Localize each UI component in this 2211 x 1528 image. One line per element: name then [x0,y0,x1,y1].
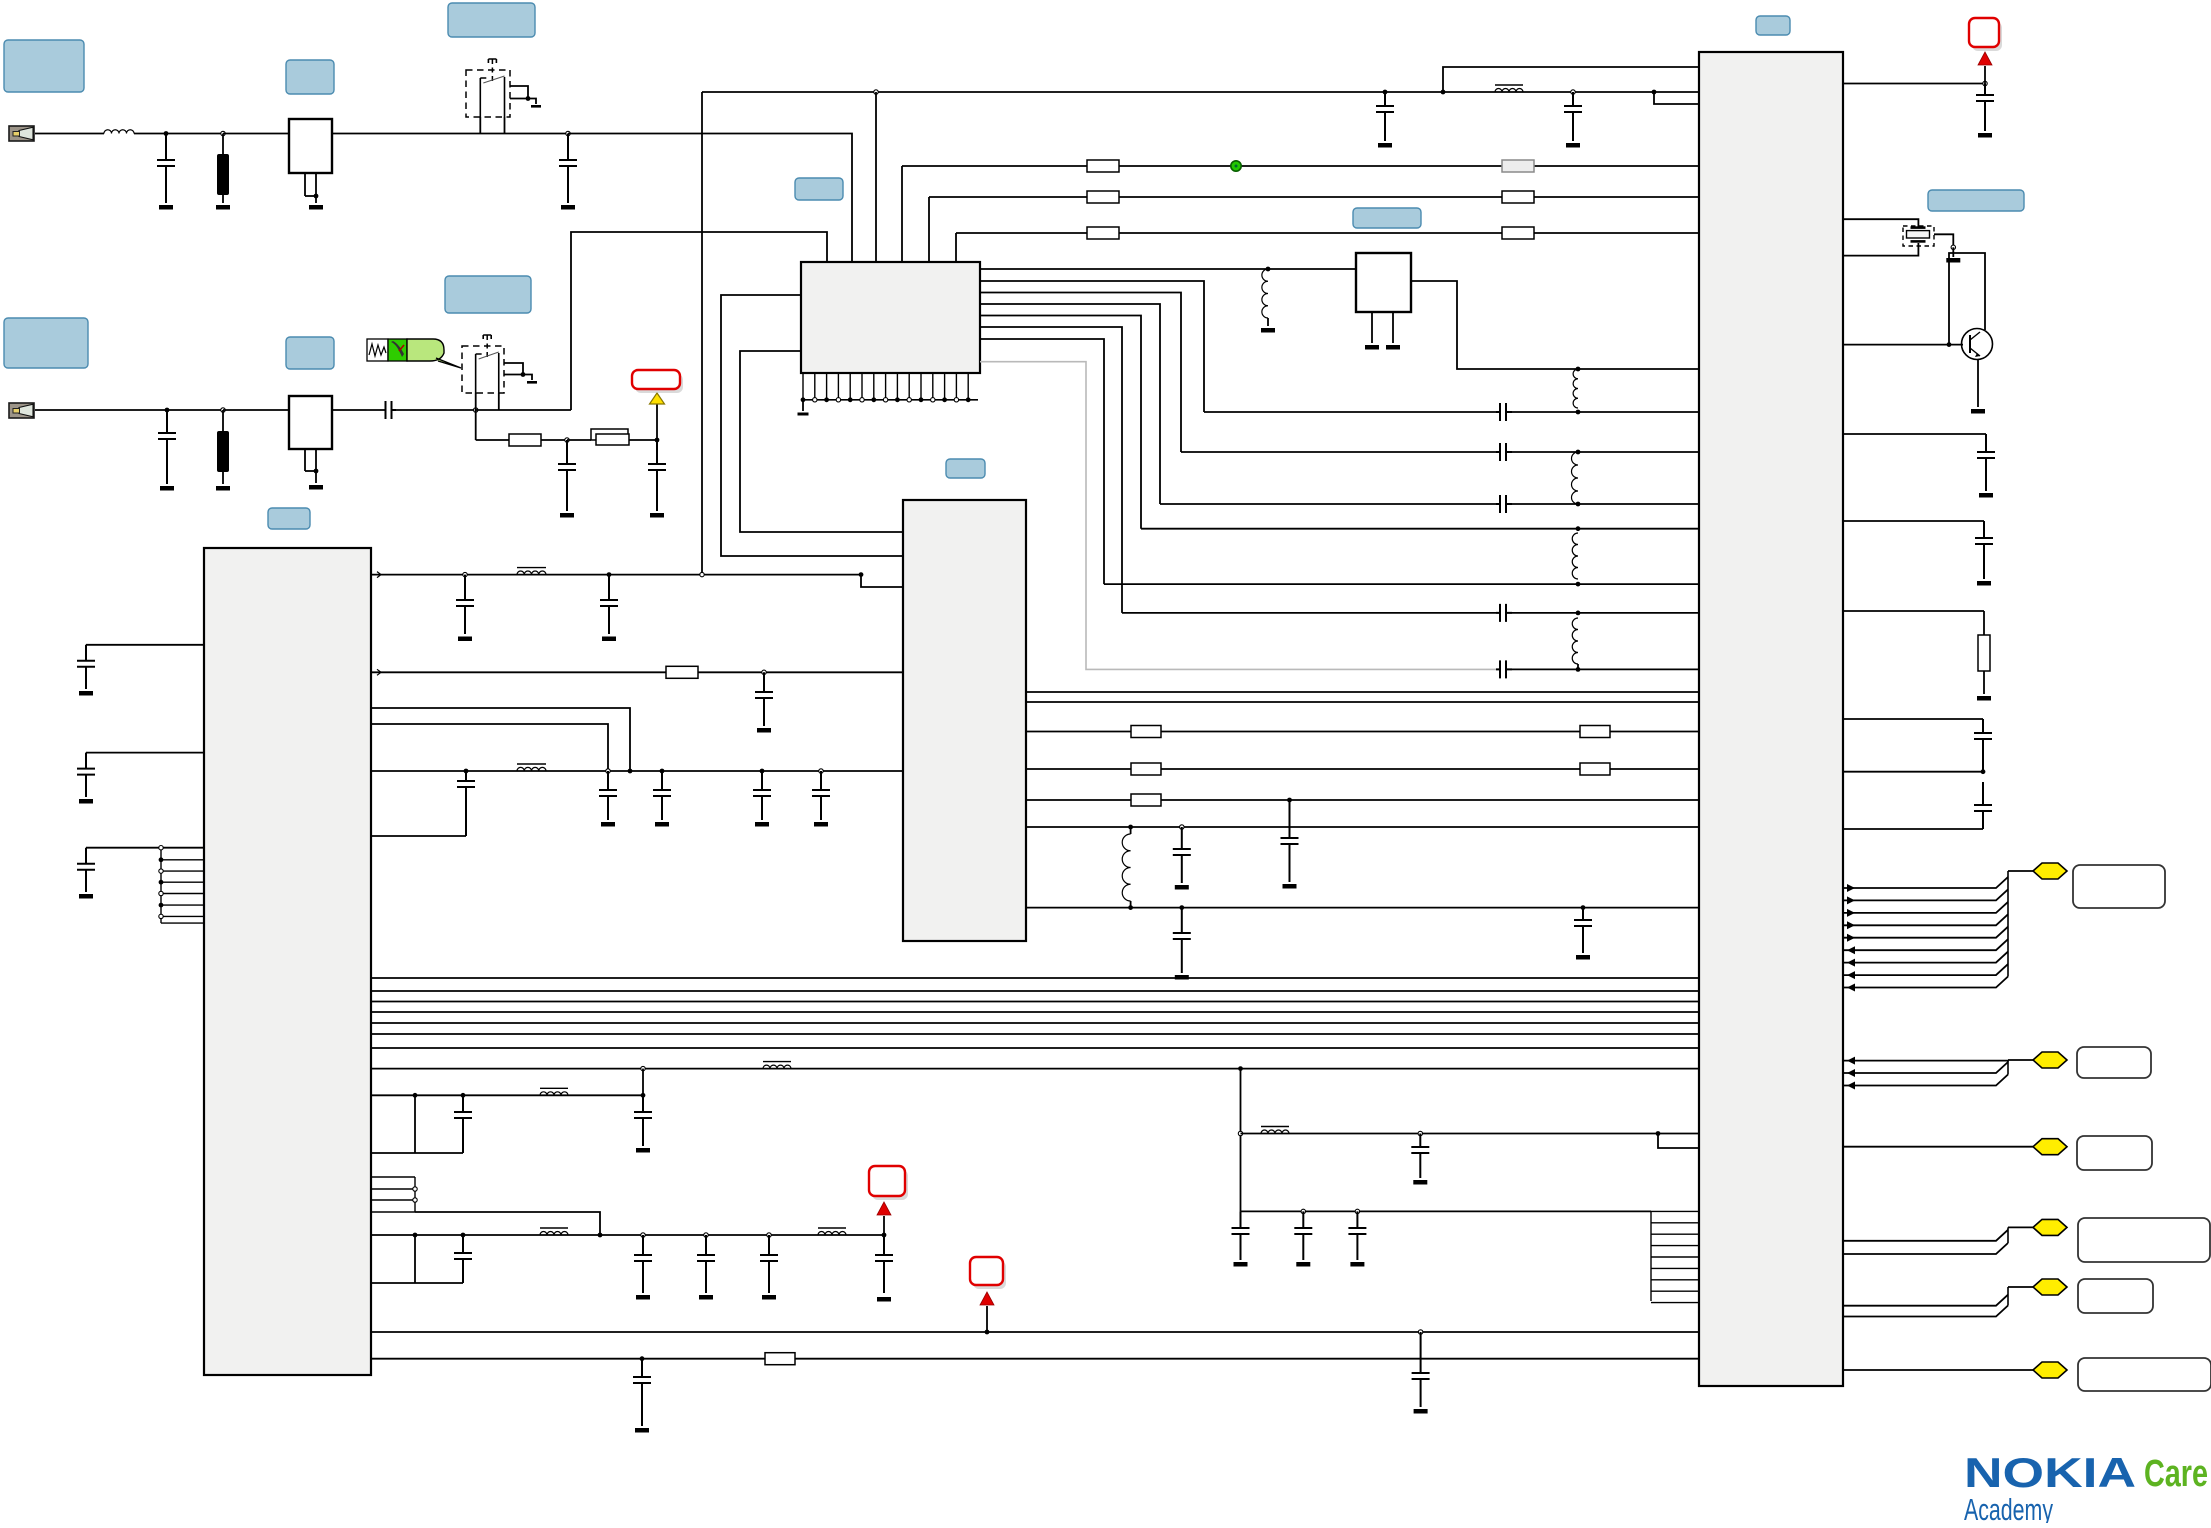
node [159,857,164,862]
wire (N7520 pin) [371,708,630,771]
node (junction) [461,1093,466,1098]
ground G4 [531,105,541,108]
inductor L3 [1262,269,1268,318]
node (junction) [1576,667,1581,672]
wire [414,1095,416,1153]
inductor L15 [1261,1127,1289,1134]
wire (N7520 left pin comb) [161,848,204,923]
node (open junction) [767,1233,771,1237]
wire (D2800 pin) [1843,718,1983,720]
node (junction) [859,572,864,577]
resistor R5 [1502,191,1534,203]
wire [166,133,223,135]
ground G19 [602,637,616,642]
resistor R7 [1580,763,1610,775]
capacitor C31 [1173,827,1191,883]
capacitor C3 [1496,495,1512,513]
node [966,397,971,402]
node (junction) [1947,342,1952,347]
wire (flag net) [1843,1369,2033,1371]
wire [414,1235,416,1283]
capacitor C30 [1974,782,1992,829]
wire [1512,668,1699,670]
antenna connector X1 (GSM) [9,126,34,141]
ground G37 [635,1428,649,1433]
off-page connector (yellow flag) [2033,1052,2067,1068]
pin arrow [1847,909,1855,917]
ground G11 [650,513,664,518]
ground G31 [1350,1262,1364,1267]
wire (D2800 pin) [1843,520,1984,522]
node (junction) [1441,90,1446,95]
wire (N7520 left pin 3) [86,847,204,849]
pin arrow [1847,1082,1855,1090]
ground G48 [1977,696,1991,701]
wire (row2 to N7504 pin) [571,232,827,410]
ground G44 [1946,258,1960,263]
wire (flag net) [1843,952,2008,963]
node (junction) [1576,450,1581,455]
node (junction) [1576,502,1581,507]
wire [1512,503,1578,505]
pin arrow [1847,959,1855,967]
node [860,398,864,402]
wire [305,470,316,472]
wire [1578,451,1699,453]
ground G13 [1566,143,1580,148]
node (junction) [1576,526,1581,531]
ground G14 [798,413,809,416]
wire (D2800 pin) [1843,828,1983,830]
ground G36 [877,1297,891,1302]
wire [1130,827,1132,834]
ground G23 [755,822,769,827]
wire [1160,503,1496,505]
node [159,903,164,908]
wire (flag net) [1843,1243,2008,1254]
wire [510,99,536,105]
node (open junction) [1180,825,1184,829]
capacitor C8 [1564,92,1582,141]
wire (V2801 collector loop) [1949,253,1985,345]
capacitor C35 [1411,1134,1429,1179]
wire (flag net) [1843,939,2008,950]
resistor R8 (pull-down) [1978,635,1990,671]
wire [1204,411,1496,413]
off-page connector (yellow flag) [2033,1362,2067,1378]
node (junction) [1576,582,1581,587]
capacitor C3 [158,410,176,484]
node (junction) [1179,905,1184,910]
capacitor C32 [1173,908,1191,973]
node [883,398,887,402]
wire (flag net) [1843,1059,2008,1062]
wire [1577,664,1579,669]
wire (to flag) [2008,1226,2033,1228]
IC N7520 (left RF transceiver) [204,548,371,1375]
resistor R2 (double outline) [591,429,629,445]
wire (N7504 matching) [980,281,1204,412]
ground G34 [699,1295,713,1300]
wire (bundle riser) [2007,1227,2009,1243]
power flag VIO (red box) [1969,18,2002,51]
node (open junction) [700,572,704,576]
node (open junction) [1571,90,1575,94]
node [159,880,164,885]
pin arrow [1847,921,1855,929]
inductor L2 (shielded) [1495,85,1523,92]
transistor V2 (antenna switch FET, dashed) [462,335,504,393]
node (junction) [660,769,665,774]
node (junction) [1652,90,1657,95]
capacitor C21 [760,1235,778,1293]
node (open junction) [641,1066,645,1070]
wire [1512,612,1578,614]
wire (return pin) [371,835,466,837]
resistor R6 [1087,227,1119,239]
node (junction) [1128,905,1133,910]
capacitor C4 [1496,604,1512,622]
wire [1983,671,1985,694]
wire (flag net) [1843,914,2008,925]
node (junction) [314,469,319,474]
net label MBUS [2078,1358,2211,1391]
wire [476,409,571,411]
ground G6 [160,486,174,491]
inductor L6 [1572,533,1578,579]
pin arrow [1847,1057,1855,1065]
probe callout (green) [367,339,461,368]
ground G46 [1979,493,1993,498]
capacitor C36 [1232,1211,1250,1260]
node (junction) [413,1233,418,1238]
node (open junction) [1418,1330,1422,1334]
pin arrow [1847,1069,1855,1077]
wire (VBATT rail to D2800) [702,91,1699,93]
net label UART [2078,1218,2210,1262]
inductor L7 [1572,618,1578,664]
node [848,397,853,402]
node (junction) [1238,1066,1243,1071]
wire (G7501 pin) [1392,312,1394,343]
capacitor C4 (series) [386,401,397,419]
wire (N7504 to N7540) [721,295,903,556]
node [159,891,163,895]
node (junction) [413,1093,418,1098]
wire (V2 source) [504,363,523,375]
node [801,397,806,402]
note (blue) switch 2 [445,276,531,313]
wire (bundle riser) [2007,1060,2009,1075]
wire (G7501 pin) [1371,312,1373,343]
node (open junction) [704,1233,708,1237]
power flag VBATT (red box) [869,1166,908,1200]
wire [222,195,224,203]
node (junction) [1576,611,1581,616]
ground G7 [216,486,230,491]
wire [371,1282,463,1284]
wire (D2800 pin) [1843,433,1986,435]
wire (PA supply row) [371,1234,884,1236]
wire [1267,318,1269,326]
capacitor C18 [454,1235,472,1283]
wire (N7504 to N7540) [740,351,903,532]
note (blue) WCDMA antenna [4,318,88,368]
capacitor C9 [456,575,474,634]
wire (D2800 left pin comb) [1651,1211,1699,1302]
node (junction) [314,194,319,199]
power flag VANT (yellow triangle) [650,393,665,404]
wire [802,400,804,411]
wire (flag net) [1843,1062,2008,1073]
note (blue) FEM [795,178,843,200]
node (open junction) [463,572,467,576]
wire (flag net) [1843,902,2008,913]
wire [1984,66,1986,84]
node [931,398,935,402]
wire [371,1094,643,1096]
note (blue) CPU [1756,16,1790,35]
ground G43 [1978,133,1992,138]
wire (to flag) [2008,1059,2033,1061]
ground G2 [216,205,230,210]
ground G25 [79,691,93,696]
inductor L4 [1573,369,1578,408]
inductor L8 [517,568,546,575]
wire (N7520 left pin 1) [86,644,204,646]
wire (bundle riser) [2007,871,2009,977]
ground G33 [636,1295,650,1300]
wire (to duplexer Z4) [223,409,289,411]
capacitor C22 [875,1235,893,1293]
node (junction) [165,408,170,413]
wire (N7540 row) [1026,799,1699,801]
pin arrow [372,669,381,675]
ground G28 [1413,1180,1427,1185]
inductor L5 [1572,452,1578,504]
ground G9 [527,381,537,384]
wire (flag net) [1843,1075,2008,1086]
wire (N7540 row) [1026,768,1699,770]
wire (to flag) [2008,1286,2033,1288]
power arrow (red) [1978,52,1992,65]
wire (flag net) [1843,1230,2008,1241]
wire [476,439,509,441]
capacitor C8 [77,848,95,892]
resistor R4 [1087,191,1119,203]
net label SPI [2077,1047,2151,1078]
wire (bottom rail 1) [371,1331,1699,1333]
wire (V1 gate) [479,117,481,134]
node (open junction) [221,408,225,412]
wire [1578,503,1699,505]
capacitor C7 [77,753,95,797]
capacitor C5 [1496,660,1512,678]
ground G1 [159,205,173,210]
wire [305,195,316,197]
node (open junction) [1951,245,1955,249]
capacitor C25 [1281,800,1299,882]
wire (N7504 matching) [980,316,1141,529]
wire [1512,451,1578,453]
wire [629,439,657,441]
node (junction) [1981,769,1986,774]
wire (RF row1 to N7504) [568,134,852,263]
capacitor C17 [634,1095,652,1146]
node (open junction) [762,670,766,674]
wire (N7540 row) [1026,691,1699,693]
node (junction) [1576,367,1581,372]
node (junction) [760,769,765,774]
capacitor C29 [1974,719,1992,772]
wire (vertical bus VBATT) [701,92,703,575]
wire [222,471,224,484]
net label CTRL bus [2073,865,2165,908]
wire [167,409,223,411]
inductor L12 [540,1228,568,1235]
wire [1578,612,1699,614]
node (junction) [607,572,612,577]
svg-text:Academy: Academy [1964,1492,2053,1523]
note (blue) PA [946,459,985,478]
node (open junction) [566,131,570,135]
wire (flag net) [1843,964,2008,975]
node [919,397,924,402]
capacitor C5 [558,440,576,511]
node (open junction) [474,408,478,412]
wire (VCO out) [1411,281,1699,369]
node (junction) [521,372,526,377]
wire [567,439,591,441]
IC N7540 (center PA module) [903,500,1026,941]
capacitor C10 [600,575,618,634]
wire (flag net) [1843,877,2008,888]
node [813,398,817,402]
resistor R1 [1502,160,1534,172]
capacitor C27 [1977,434,1995,491]
ground G27 [79,894,93,899]
wire (bus line 3) [371,1001,1699,1003]
inductor L10 [763,1062,791,1069]
note (blue) VCO [1353,208,1421,228]
off-page connector (yellow flag) [2033,1219,2067,1235]
crystal B2800 (32.768kHz) [1903,226,1934,246]
note (blue) antenna switch [448,3,535,37]
capacitor C6 [77,645,95,689]
node [895,397,900,402]
pin arrow [1847,971,1855,979]
wire [480,133,568,135]
node (junction) [985,1330,990,1335]
wire (N7504 matching) [980,327,1122,613]
node (junction) [1576,410,1581,415]
wire [371,1152,463,1154]
filter Z3 (ESD/SAW) [217,431,229,472]
logo NOKIA Care Academy [1964,1449,2208,1527]
ground G39 [1283,884,1297,889]
inductor L9 [517,764,546,771]
ground G21 [601,822,615,827]
wire (antenna X1 to L1) [35,133,104,135]
IC D2800 (right baseband) [1699,52,1843,1386]
pin arrow [1847,934,1855,942]
wire (control row 3) [956,232,1699,234]
wire (D2800 VIO) [1843,83,1985,85]
resistor R7 [1502,227,1534,239]
node (junction) [1383,90,1388,95]
wire (loop to D2800 pin) [1443,67,1699,92]
node (junction) [628,769,633,774]
wire (N7504 pin up) [901,166,903,262]
wire (flag net) [1843,927,2008,938]
wire (into N7540) [861,575,903,587]
wire [1934,234,1953,247]
note (blue) RX filter [286,60,334,94]
wire [1843,243,1918,256]
node (junction) [1656,1131,1661,1136]
node (junction) [640,1356,645,1361]
power arrow (red) [980,1292,994,1305]
wire (V2 drain) [498,393,500,410]
capacitor C2 [559,134,577,204]
capacitor C14 [753,771,771,820]
resistor R1 [509,434,541,446]
wire [1122,612,1496,614]
wire (control row 1) [902,165,1699,167]
wire (N7540 row) [1026,907,1699,909]
wire (gray net) [980,362,1496,670]
wire (N7540 row) [1026,826,1699,828]
wire (Z2 pin) [304,173,306,196]
wire (bus line 5) [371,1022,1699,1024]
wire (bus line 7) [371,1047,1699,1049]
wire (bus line 2) [371,990,1699,992]
ground G22 [655,822,669,827]
pin arrow [1847,896,1855,904]
wire (to N7504) [875,92,877,262]
node (open junction) [565,438,569,442]
node [159,869,163,873]
resistor R8 [1131,794,1161,806]
node (open junction) [1301,1209,1305,1213]
resistor R3 [1087,160,1119,172]
wire (to VBATT flag) [883,1216,885,1235]
off-page connector (yellow flag) [2033,1279,2067,1295]
inductor L13 [818,1228,846,1235]
capacitor C12 [599,771,617,820]
wire (bus line 4) [371,1011,1699,1013]
note (blue) RF IC [268,508,310,529]
ground G18 [458,637,472,642]
node [871,397,876,402]
node [159,914,163,918]
capacitor C1 [1496,403,1512,421]
wire (N7520 supply row) [371,770,903,772]
wire (flag net) [1843,1295,2008,1306]
node (junction) [164,131,169,136]
wire (Z4 pin) [304,449,306,471]
wire (N7520 pin comb lower) [371,1177,415,1212]
wire (N7540 row) [1026,731,1699,733]
capacitor C13 [653,771,671,820]
wire (D2800 pin) [1843,771,1983,773]
filter module Z2 (front-end) [289,119,332,173]
wire (to V2801 base) [1843,344,1963,346]
pin arrow [1847,884,1855,892]
wire [1952,247,1954,257]
wire (N7504 matching) [980,304,1160,504]
wire (V2801 emitter) [1977,359,1979,407]
